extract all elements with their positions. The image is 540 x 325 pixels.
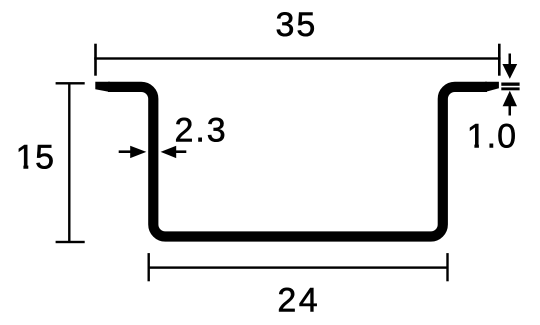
DIN rail hat profile body xyxy=(108,87,487,237)
serif mask left of digit 1 foot (label 1.0) xyxy=(468,143,475,148)
dimension 35: right end tick xyxy=(498,44,501,76)
profile left lip tip (tapered) xyxy=(95,82,110,92)
serif mask right of digit 1 foot (label 15) xyxy=(28,164,35,169)
dimension 24: left end tick xyxy=(148,253,150,281)
dimension 15: vertical dimension line xyxy=(68,83,70,242)
svg-text:2.3: 2.3 xyxy=(174,111,227,149)
svg-text:24: 24 xyxy=(277,281,320,319)
dimension 1.0: down arrow shaft xyxy=(509,54,512,66)
dimension 1.0: down arrowhead xyxy=(502,64,517,79)
profile right lip tip (tapered) xyxy=(485,82,499,92)
dimension 35: left end tick xyxy=(94,44,97,76)
dimension 2.3: left arrowhead xyxy=(130,146,146,158)
dimension 1.0: up arrow shaft xyxy=(509,105,512,116)
svg-text:1.0: 1.0 xyxy=(467,117,517,155)
svg-text:35: 35 xyxy=(275,6,317,44)
dimension 1.0: upper thickness bar xyxy=(501,83,519,86)
serif mask left of digit 1 foot (label 15) xyxy=(17,164,24,169)
dimension 35: horizontal dimension line xyxy=(94,57,500,59)
dimension 1.0: lower thickness bar xyxy=(501,87,519,90)
dimension 15: top tick xyxy=(56,82,85,84)
dimension 2.3: right arrowhead xyxy=(161,146,177,158)
serif mask right of digit 1 foot (label 1.0) xyxy=(479,143,486,148)
svg-text:15: 15 xyxy=(16,138,55,176)
dimension 15: bottom tick xyxy=(56,241,85,243)
dimension 2.3: left arrow shaft xyxy=(119,150,132,153)
dimension 2.3: right arrow shaft xyxy=(175,150,187,153)
dimension 24: right end tick xyxy=(446,253,448,281)
dimension 1.0: up arrowhead xyxy=(503,91,517,107)
dimension 24: horizontal dimension line xyxy=(149,266,448,268)
